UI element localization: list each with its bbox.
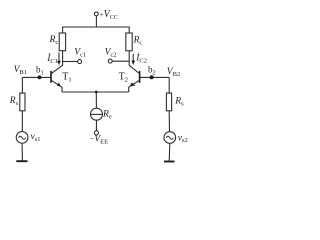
transistor Q1 emitter arrow [57,82,61,86]
wire right column lower [168,143,171,160]
ground bar right [164,161,175,163]
wire left column upper [21,77,23,93]
wire right collector [128,51,130,66]
svg-text:vs2: vs2 [178,133,188,144]
wire VCC stem [95,16,97,27]
svg-text:Vc2: Vc2 [105,47,117,58]
current arrow IC2 [132,54,134,62]
node b1 [38,75,42,79]
svg-text:T1: T1 [62,72,71,84]
svg-text:Rs: Rs [174,97,184,108]
wire emitter slant T2 [129,80,140,92]
svg-text:İC2: İC2 [135,51,147,64]
wire base right [139,76,169,78]
svg-text:Re: Re [102,109,112,120]
wire Vc1 stub [63,61,78,63]
node b2 [150,75,154,79]
transistor Q1 base bar [50,71,52,83]
wire emitter rail [62,91,129,93]
svg-text:İC1: İC1 [46,52,58,65]
resistor Rc1 [59,33,65,51]
wire right column mid [168,111,170,132]
svg-text:vs1: vs1 [31,132,41,143]
resistor Rs1 [20,93,25,111]
source vs1 [16,132,28,144]
terminal +VCC [94,12,98,16]
wire top rail [63,27,130,33]
svg-text:Rc: Rc [133,35,143,46]
transistor Q2 emitter arrow [130,83,136,87]
wire left column lower [21,143,23,161]
wire tail lower [95,120,97,131]
svg-text:−VEE: −VEE [90,135,108,146]
wire collector slant T1 [51,65,62,73]
wire left collector [62,51,64,66]
transistor Q2 base bar [139,71,141,83]
wire collector slant T2 [129,65,139,73]
wire base left [22,76,50,78]
wire right column upper [168,77,170,93]
resistor Rc2 [126,33,132,51]
node tail junction [95,91,98,94]
terminal Vc1 [78,60,82,64]
resistor Rs2 [166,93,171,111]
wire emitter slant T1 [51,80,62,92]
ground bar left [16,160,27,162]
svg-text:Rc: Rc [49,35,59,46]
current arrow IC1 [58,53,60,62]
svg-text:VB1: VB1 [14,65,27,76]
svg-text:Vc1: Vc1 [74,48,86,59]
wire left column mid [21,111,23,132]
current source Re circle [91,108,103,120]
svg-text:b2: b2 [148,64,156,76]
terminal Vc2 [108,59,112,63]
source vs2 [164,132,176,144]
svg-text:+VCC: +VCC [99,9,117,21]
wire Vc2 stub [112,60,129,62]
svg-text:T2: T2 [119,72,128,84]
svg-text:VB2: VB2 [167,67,180,78]
svg-text:b1: b1 [36,64,44,76]
svg-text:Rs: Rs [9,96,19,107]
wire tail upper [95,92,97,108]
terminal -VEE [94,131,98,135]
